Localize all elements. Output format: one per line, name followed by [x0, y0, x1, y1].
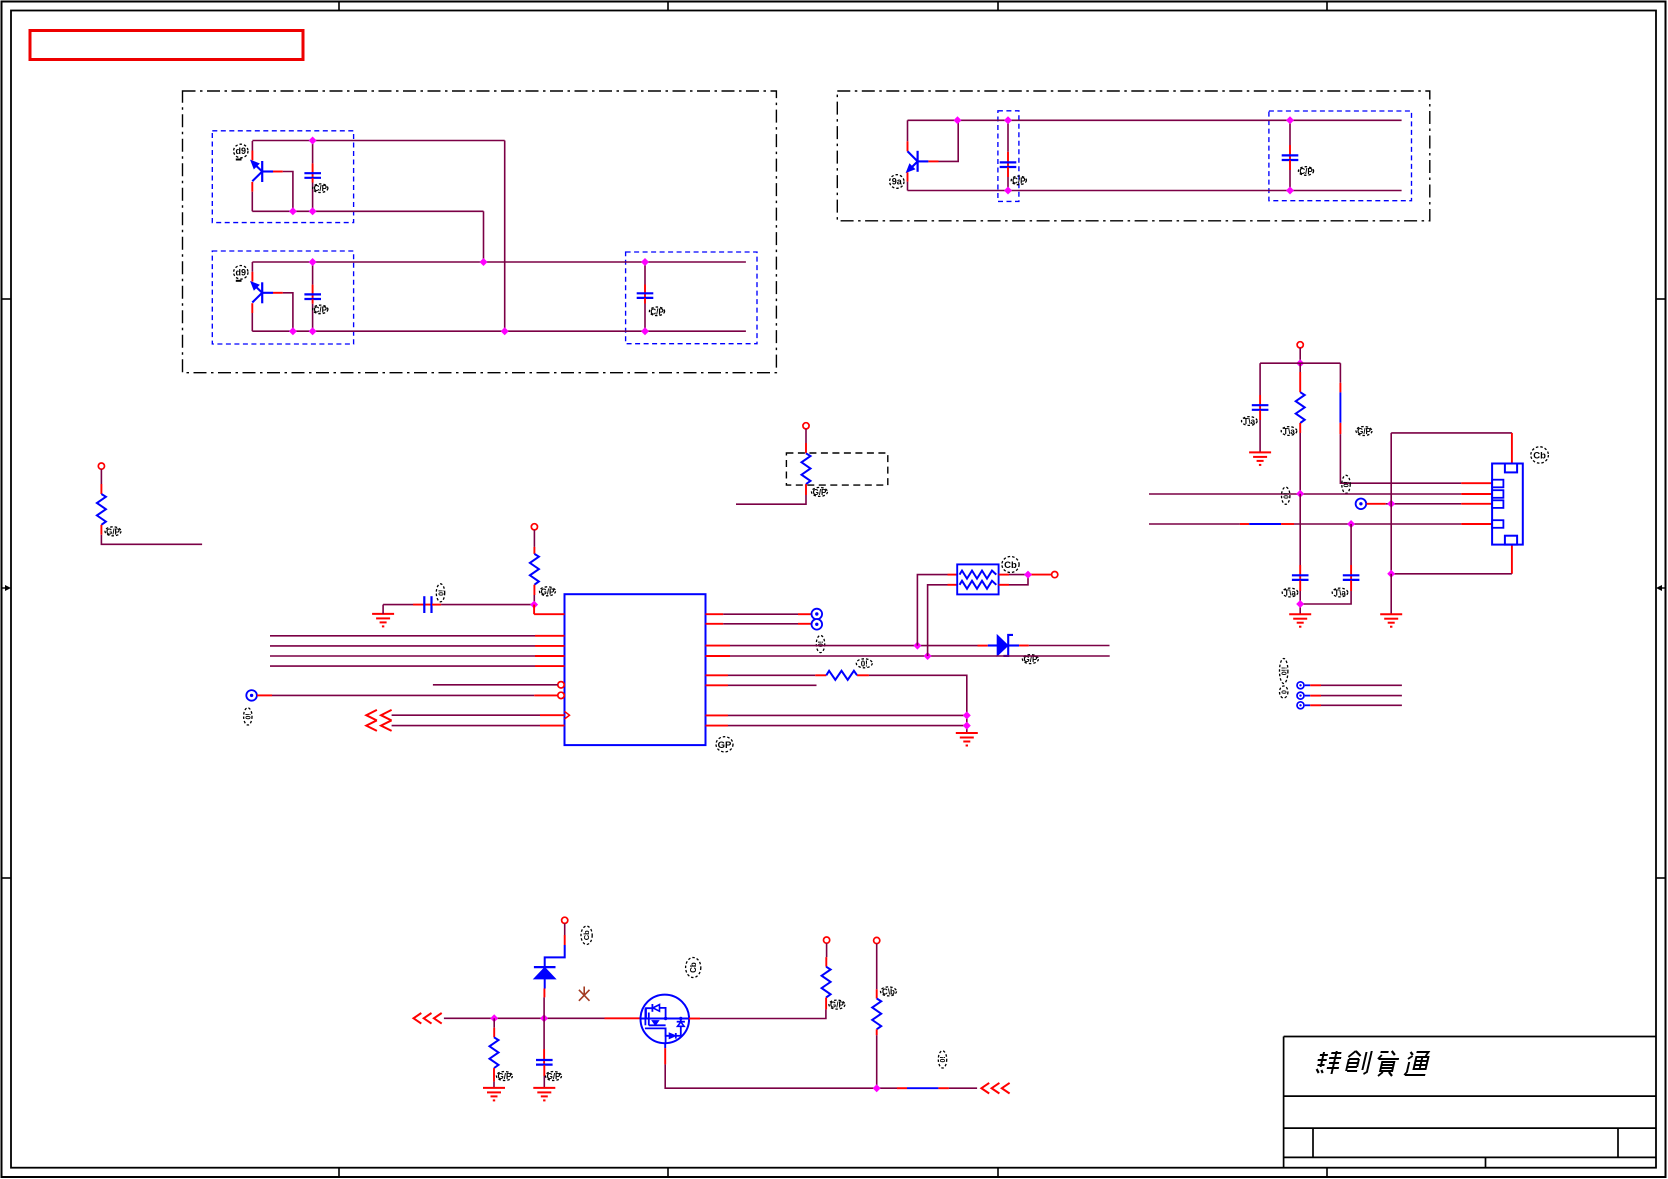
label C near IC: [436, 584, 445, 602]
wire power node horizontal: [1260, 362, 1340, 364]
capacitor C1: [304, 141, 321, 212]
label bottom return wire: [938, 1051, 947, 1068]
company name glyph 1: [1314, 1051, 1342, 1074]
capacitor C4: [1000, 120, 1017, 190]
zone tick bottom 2: [667, 1168, 669, 1177]
wire bundle left 3: [270, 655, 535, 657]
svg-text:G/P: G/P: [106, 527, 120, 536]
label U1 refdes: [716, 737, 733, 752]
svg-text:Cb: Cb: [689, 962, 698, 973]
junction top C4: [1004, 116, 1012, 124]
svg-text:0!: 0!: [861, 659, 868, 668]
resistor right 2: [872, 944, 881, 1089]
wire to inverted pin y684.8: [433, 684, 558, 686]
wire bottom-left main: [444, 1017, 640, 1019]
wire IC pin y645.6 to zener: [706, 645, 988, 647]
label diode power: [581, 926, 592, 944]
svg-text:C/P: C/P: [650, 307, 664, 316]
svg-text:G/P: G/P: [498, 1072, 512, 1081]
label MOSFET refdes: [686, 958, 701, 978]
junction pin3 vertical: [1387, 500, 1395, 508]
svg-text:T\a: T\a: [1283, 427, 1295, 436]
wire IC pin y685.3 dead end: [706, 684, 817, 686]
svg-text:d9: d9: [236, 146, 247, 156]
wire bundle left 2: [270, 645, 535, 647]
label C2: [313, 305, 328, 314]
label C4: [1011, 176, 1026, 185]
svg-text:0!: 0!: [245, 713, 252, 719]
label RP: [1002, 557, 1019, 573]
zone tick right 1: [1656, 298, 1666, 300]
zone tick left 2: [2, 877, 12, 879]
wire pin4 from left: [1149, 523, 1492, 525]
ground below caps: [1289, 614, 1311, 627]
blue dashed box Q top-left 1: [212, 131, 353, 223]
junction pin2/resistor: [1296, 490, 1304, 498]
label resistor right 2: [881, 987, 897, 997]
transistor Q2: [251, 262, 293, 331]
blue dashed box Q top-left 2: [212, 251, 353, 344]
junction bottom C1: [309, 207, 317, 215]
wire chevron to IC pin y725.6: [392, 725, 565, 727]
junction bottom C3: [641, 327, 649, 335]
MOSFET M1: [641, 995, 701, 1065]
label zener: [1022, 655, 1038, 665]
test point row 2: [1297, 692, 1304, 699]
label capacitor A: [1282, 588, 1298, 597]
junction 483.5,262: [480, 258, 488, 266]
ground below capacitor: [533, 1088, 555, 1101]
ground right column: [1380, 614, 1402, 627]
ground left of IC: [372, 614, 394, 627]
svg-text:G/P: G/P: [1357, 427, 1371, 436]
capacitor below diode: [536, 1018, 553, 1088]
IC left pin stub y656: [535, 655, 565, 657]
zone tick top 3: [997, 2, 999, 11]
wire IC pin y675.3 through resistor: [706, 674, 827, 676]
label resistor right 1: [829, 1000, 845, 1010]
power port pack: [1052, 572, 1058, 578]
junction diode node: [540, 1014, 548, 1022]
svg-text:T\a: T\a: [1334, 589, 1346, 598]
label test point rows: [1280, 659, 1289, 684]
junction power node: [1296, 359, 1304, 367]
capacitor B below pin4 junction: [1300, 524, 1359, 604]
wire right branch to connector pin1: [1340, 363, 1491, 483]
label C1: [313, 184, 328, 193]
wire test point row 1: [1305, 684, 1402, 686]
off-page chevrons data wire: [366, 720, 391, 731]
wire test point row 3: [1305, 704, 1402, 706]
zone tick left 1: [2, 298, 12, 300]
power port far-left: [98, 463, 104, 469]
IC U1 body: [565, 594, 706, 745]
junction pack output: [1024, 571, 1032, 579]
capacitor A below resistor: [1292, 494, 1309, 614]
zone tick right 2: [1656, 877, 1666, 879]
zone tick top 1: [338, 2, 340, 11]
wire resistor to ground net: [857, 675, 967, 733]
svg-text:G/P: G/P: [541, 587, 555, 596]
junction bottom C5: [1286, 187, 1294, 195]
svg-text:G/P: G/P: [813, 488, 827, 497]
junction caps ground node: [1296, 600, 1304, 608]
svg-text:G/P: G/P: [830, 1001, 844, 1010]
svg-text:d9: d9: [236, 268, 247, 278]
wire connector bottom: [1391, 545, 1512, 574]
label resistor horizontal: [856, 659, 872, 669]
svg-text:C/P: C/P: [314, 184, 328, 193]
svg-text:C/P: C/P: [1299, 167, 1313, 176]
svg-text:0!: 0!: [1283, 493, 1290, 499]
power port right resistor 1: [824, 937, 830, 943]
power port above dashed resistor: [803, 423, 809, 429]
blue dashed box C top-left: [626, 252, 757, 344]
test point right of IC 1: [812, 609, 823, 620]
wire MOSFET to right resistor: [700, 1009, 826, 1018]
connector J body: [1492, 464, 1523, 545]
label pin1 wire vertical: [1342, 475, 1351, 493]
wire pack outputs to power: [1009, 575, 1052, 585]
resistor right 1: [822, 943, 831, 1009]
transistor Q1: [251, 141, 293, 211]
off-page chevrons bottom-left: [414, 1013, 442, 1024]
wire vertical 917.4 up to pack: [917, 575, 947, 646]
junction bottom return: [873, 1084, 881, 1092]
zone tick bottom 4: [1326, 1168, 1328, 1177]
IC left pin stub y645.9: [535, 645, 565, 647]
wire net top-right top (y=120.3): [908, 119, 1402, 121]
svg-text:0!: 0!: [438, 590, 445, 596]
svg-text:0!: 0!: [940, 1056, 947, 1062]
diode bottom-left: [534, 923, 565, 1018]
centering arrow right: [1656, 585, 1666, 591]
label test points right of IC: [816, 635, 825, 652]
label C3: [649, 307, 664, 316]
red revision box: [30, 31, 303, 60]
dash-dot block top-right: [837, 91, 1430, 221]
ground right of IC: [956, 733, 978, 746]
power port above R by IC: [531, 524, 537, 530]
junction 966.8,715.4: [963, 711, 971, 719]
test point row 3: [1297, 702, 1304, 709]
label Q2 refdes: [234, 266, 248, 281]
IC inverted pin circle y684.8: [558, 682, 564, 688]
junction top Q1-C1: [309, 137, 317, 145]
label capacitor B: [1332, 588, 1348, 597]
svg-text:GP: GP: [718, 740, 732, 751]
test point right of IC 2: [812, 619, 823, 630]
IC left pin stub y666.1: [535, 665, 565, 667]
wire pin2 from left: [1149, 493, 1492, 495]
wire bottom of Q1 box (y=211.3): [252, 210, 483, 212]
label dashed-box resistor: [812, 487, 828, 497]
svg-text:0: 0: [1281, 690, 1288, 694]
zone tick top 4: [1326, 2, 1328, 11]
svg-text:0!!: 0!!: [1281, 667, 1288, 676]
svg-text:T\a: T\a: [1284, 589, 1296, 598]
resistor connector-section: [1296, 363, 1305, 494]
no-connect X marker: [579, 987, 590, 1001]
capacitor C2: [304, 262, 321, 331]
wire vertical 1391.2: [1390, 433, 1392, 574]
capacitor connector-section left: [1252, 363, 1269, 452]
wire test point to inverted pin y695.4: [257, 694, 558, 696]
junction top Q2-C2: [309, 258, 317, 266]
label R far-left: [105, 527, 121, 537]
svg-text:C/P: C/P: [1012, 176, 1026, 185]
company name glyph 3: [1374, 1051, 1401, 1076]
label G/P upper right area: [1356, 427, 1372, 437]
junction 504.7,331.2: [501, 327, 509, 335]
svg-text:9a: 9a: [892, 177, 903, 187]
dash-dot block top-left: [183, 91, 777, 373]
wire top to connector top pin: [1391, 433, 1512, 464]
zone tick bottom 1: [338, 1168, 340, 1177]
wire vertical 483.5 from y211.3 to y262: [483, 211, 485, 262]
test point left of IC: [246, 690, 257, 701]
wire bundle left 1: [270, 635, 535, 637]
IC left pin stub y635.8: [535, 635, 565, 637]
junction pin4/capB: [1347, 520, 1355, 528]
junction 966.8,725.6: [963, 722, 971, 730]
label test point rows 2: [1280, 686, 1289, 698]
label R above IC: [540, 587, 556, 597]
label pin2 wire vertical: [1282, 487, 1291, 504]
IC right pin y614.2 to test point: [706, 613, 812, 615]
IC right pin y623.8 to test point: [706, 623, 812, 625]
label test point left: [244, 708, 253, 725]
wire from R far-left: [101, 535, 202, 545]
ground connector-section left: [1249, 452, 1271, 465]
black dashed box around resistor: [786, 453, 887, 485]
junction bottom Q1 base: [289, 207, 297, 215]
svg-text:G/P: G/P: [547, 1072, 561, 1081]
title block outline: [1284, 1037, 1656, 1168]
junction 1391.2,573.8: [1387, 570, 1395, 578]
blue dashed box C top-right narrow: [998, 111, 1019, 202]
wire bottom of Q2 box (y=331.2): [252, 330, 746, 332]
test point row 1: [1297, 682, 1304, 689]
wire net top of Q1 box (y=140.5): [252, 140, 504, 142]
wire IC pin y725.6: [706, 725, 967, 727]
junction resistor node: [490, 1014, 498, 1022]
svg-text:0!: 0!: [1344, 481, 1351, 487]
junction 917.4,645.6: [913, 642, 921, 650]
company name glyph 4: [1404, 1052, 1430, 1075]
off-page chevrons bottom-right: [981, 1083, 1009, 1094]
capacitor C5: [1282, 120, 1299, 190]
wire vertical 927.6 up to pack: [928, 585, 948, 656]
wire IC pin y715.4: [706, 714, 967, 716]
resistor pack RP: [948, 564, 1010, 594]
wire zener to right end: [1019, 645, 1109, 647]
junction top C3: [641, 258, 649, 266]
wire IC pin y656 to right end: [706, 655, 1110, 657]
wire vertical 504.7 from y140.5 to y331.2: [504, 141, 506, 332]
svg-text:C/P: C/P: [314, 305, 328, 314]
zone tick top 2: [667, 2, 669, 11]
resistor bottom-left: [490, 1018, 499, 1088]
zener diode D: [988, 635, 1019, 656]
wire chevron to IC clock pin: [392, 714, 565, 716]
svg-text:Cb: Cb: [1004, 560, 1017, 571]
resistor R above IC: [530, 530, 539, 605]
wire power to junction: [1299, 348, 1301, 363]
off-page chevrons clock wire: [366, 710, 391, 721]
junction bottom C2: [309, 327, 317, 335]
label Q1 refdes: [234, 144, 248, 159]
svg-text:T\a: T\a: [1244, 417, 1256, 426]
label C5: [1298, 167, 1313, 176]
capacitor C3: [637, 262, 654, 331]
label resistor bottom-left: [496, 1072, 512, 1082]
label resistor connector-section: [1281, 427, 1297, 436]
svg-text:C\b: C\b: [882, 987, 895, 996]
wire bottom return: [665, 1064, 977, 1088]
power port right resistor 2: [874, 937, 880, 943]
wire test point row 2: [1305, 695, 1402, 697]
wire test point to pin3: [1366, 503, 1491, 505]
label Q3 refdes: [890, 175, 904, 189]
junction bottom C4: [1004, 187, 1012, 195]
capacitor C near IC top-left (vertical plates): [383, 596, 534, 614]
junction 927.6,656: [924, 652, 932, 660]
resistor horizontal right of IC: [826, 671, 857, 680]
label connector J: [1531, 447, 1549, 463]
centering arrow left: [2, 585, 12, 591]
IC inverted pin circle y695.4: [558, 692, 564, 698]
label capacitor below diode: [546, 1072, 562, 1082]
transistor Q3: [907, 120, 959, 190]
wire net top of Q2 box (y=262): [252, 261, 746, 263]
label capacitor left: [1242, 417, 1258, 426]
ground bottom-left resistor: [483, 1088, 505, 1101]
junction top C5: [1286, 116, 1294, 124]
blue dashed box C top-right wide: [1269, 111, 1412, 201]
wire bundle left 4: [270, 665, 535, 667]
power port connector section: [1297, 342, 1303, 348]
company name glyph 2: [1344, 1051, 1371, 1074]
wire below dashed-box resistor: [736, 495, 806, 504]
svg-text:Cb: Cb: [1533, 451, 1546, 462]
wire junction to IC pin1: [534, 605, 564, 615]
svg-text:Cb: Cb: [582, 930, 591, 940]
resistor in black dashed box: [802, 429, 811, 495]
wire net top-right bottom (y=190.5): [908, 190, 1402, 192]
IC clock pin mark: [565, 711, 570, 719]
junction C/R net by IC: [530, 601, 538, 609]
wire vertical to ground right: [1390, 574, 1392, 614]
power port diode branch: [562, 917, 568, 923]
junction bottom Q2 base: [289, 327, 297, 335]
zone tick bottom 3: [997, 1168, 999, 1177]
test point connector section: [1356, 499, 1367, 510]
resistor R far-left: [97, 469, 106, 535]
junction Q3 base net: [954, 116, 962, 124]
